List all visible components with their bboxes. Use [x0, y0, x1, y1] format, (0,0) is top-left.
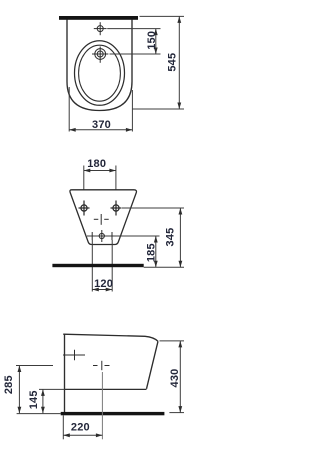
- extension line from tap hole: [107, 28, 160, 30]
- ext from plus marks down through floor: [91, 240, 93, 292]
- svg-text:185: 185: [146, 243, 158, 262]
- centre axis mark (front): [94, 214, 109, 225]
- bidet body outline (plan): [67, 20, 132, 111]
- dim 430 line: [178, 341, 182, 413]
- bowl inner rim oval: [79, 45, 121, 101]
- extension from fixing holes to 345: [122, 207, 184, 209]
- dim 545 line: [177, 16, 181, 109]
- svg-text:545: 545: [167, 53, 179, 72]
- ext 545 bottom: [132, 108, 184, 110]
- dim 120 line: [92, 288, 112, 292]
- top rim edge (side): [63, 334, 158, 341]
- bottom holes reference line: [87, 235, 160, 237]
- drain centre mark (side): [93, 361, 110, 370]
- dim 145 line: [41, 389, 45, 413]
- drain crosshair (plan): [92, 47, 108, 63]
- dim 345 line: [179, 208, 183, 267]
- dim 220 line: [63, 433, 102, 437]
- underside line + 145 extension: [39, 388, 65, 390]
- fixing hole left crosshair: [79, 201, 90, 216]
- back edge (side): [64, 334, 66, 415]
- svg-text:285: 285: [3, 375, 15, 394]
- svg-text:150: 150: [146, 31, 158, 50]
- floor bar (front): [52, 264, 143, 267]
- ext 370 left: [68, 87, 70, 132]
- svg-text:345: 345: [165, 228, 177, 247]
- ext 180 left: [83, 166, 85, 191]
- tank body trapezoid (front): [70, 190, 137, 245]
- svg-text:370: 370: [92, 119, 111, 131]
- fixing hole right crosshair: [111, 201, 122, 216]
- svg-text:180: 180: [87, 158, 106, 170]
- bowl outer rim oval: [75, 41, 125, 106]
- ext 180 right: [115, 166, 117, 191]
- ext 220 left: [62, 415, 64, 439]
- bottom plus mark left: [91, 232, 93, 240]
- ext right plus down: [111, 240, 113, 292]
- svg-text:430: 430: [169, 369, 181, 388]
- floor thin line left: [17, 413, 61, 415]
- front face slant: [147, 341, 159, 389]
- bottom plus mark right: [111, 232, 113, 240]
- dim 185 line: [154, 236, 158, 267]
- floor bar (side): [61, 412, 165, 415]
- dim 180 line: [84, 169, 116, 173]
- ext 370 right: [131, 90, 133, 132]
- wall bar (plan): [59, 16, 138, 20]
- bottom drain crosshair (front): [99, 230, 104, 242]
- floor reference line right: [144, 266, 184, 268]
- dim 150 line: [154, 29, 158, 54]
- extension line from drain: [110, 53, 161, 55]
- ext 430 top: [160, 340, 185, 342]
- ext 220 right (from drain): [101, 372, 103, 439]
- water inlet cross (side): [63, 350, 85, 360]
- svg-text:145: 145: [28, 390, 40, 409]
- svg-text:220: 220: [71, 422, 90, 434]
- dim 370 line: [69, 128, 132, 132]
- dim 285 line: [18, 366, 22, 414]
- tap hole crosshair: [94, 22, 107, 35]
- ext 545 top: [140, 15, 185, 17]
- ext 430 bottom: [169, 412, 184, 414]
- 285 extension line: [16, 365, 53, 367]
